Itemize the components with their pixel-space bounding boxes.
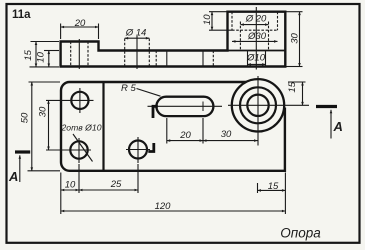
top-left hole centerlines [46, 99, 94, 101]
slot arc centerlines in side view [166, 50, 168, 68]
svg-text:Ø 20: Ø 20 [245, 14, 267, 25]
dimension 10 (plate thickness) [44, 50, 59, 52]
O30 counterbore hidden edges [231, 12, 233, 31]
plate top edge under boss [228, 50, 286, 52]
dimension 15 (step height) [31, 41, 60, 43]
svg-text:30: 30 [290, 33, 301, 44]
dimension 25 (hole to hole) [79, 189, 138, 191]
section step mark lower [148, 143, 154, 152]
left hole centerline in side view [78, 39, 80, 69]
dimension O30 [232, 40, 278, 42]
slot (obround) [156, 97, 213, 116]
svg-text:15: 15 [23, 49, 34, 60]
dimension 20 (slot length) [167, 140, 203, 142]
svg-text:Ø10: Ø10 [246, 53, 266, 64]
svg-text:20: 20 [179, 130, 191, 141]
slot right arc center tick [202, 102, 204, 112]
dimension O20 [240, 24, 268, 26]
dimension 30 (between left holes) [48, 100, 50, 150]
svg-text:Ø30: Ø30 [247, 31, 267, 42]
svg-text:10: 10 [65, 180, 76, 191]
O10 hole edges through plate [247, 51, 249, 67]
R5 leader [137, 89, 161, 97]
section step mark upper [153, 106, 158, 118]
dimension 120 (overall) [61, 210, 286, 212]
top-left hole [71, 92, 88, 109]
bottom-left hole [70, 141, 87, 158]
svg-text:15: 15 [287, 81, 298, 92]
svg-text:10: 10 [202, 14, 213, 25]
O14 centerline in side view [136, 36, 138, 69]
leader through bottom-left hole [73, 134, 93, 162]
svg-text:R 5: R 5 [121, 83, 137, 94]
svg-text:A: A [333, 119, 343, 134]
middle hole [129, 141, 147, 159]
svg-text:25: 25 [110, 179, 122, 190]
boss O20 circle [247, 95, 268, 116]
dimension O10 (through hole) [248, 63, 266, 65]
svg-text:30: 30 [37, 106, 48, 117]
svg-text:10: 10 [36, 51, 47, 62]
section arrow right [316, 105, 337, 108]
svg-text:15: 15 [268, 181, 279, 192]
boss O30 circle [240, 87, 276, 123]
dimension 20 (top of step) [60, 24, 62, 40]
svg-text:30: 30 [221, 129, 232, 140]
slot horizontal centerline [148, 105, 223, 107]
svg-text:11а: 11а [12, 9, 31, 21]
middle hole centerlines [126, 149, 150, 151]
dimension 15 (boss center to right edge) [258, 189, 286, 191]
boss centerline vertical [257, 76, 259, 146]
bottom-left hole centerlines [46, 149, 91, 151]
svg-text:2отв Ø10: 2отв Ø10 [60, 123, 101, 133]
dimension 30 (boss height) [287, 11, 303, 13]
svg-text:Опора: Опора [280, 226, 321, 241]
svg-text:50: 50 [19, 112, 30, 123]
svg-text:120: 120 [155, 201, 172, 212]
O20 hole hidden edges [239, 22, 241, 51]
svg-text:A: A [8, 169, 18, 184]
slot hidden edges in side view [155, 51, 157, 67]
dimension 10 (counterbore depth) [209, 11, 228, 13]
divider line of thicker left pad [102, 82, 104, 171]
O14 hole hidden edges in side view [124, 39, 126, 67]
boss centerline horizontal [228, 104, 309, 106]
dimension 50 (left overall height) [29, 81, 61, 83]
front view outline [61, 82, 285, 171]
extension lines bottom dims [60, 173, 62, 215]
slot arc centerlines / extension lines [166, 118, 168, 144]
counterbore bottom hidden line [232, 29, 278, 31]
dimension 10 (left edge to hole) [61, 189, 79, 191]
boss outer circle [232, 79, 284, 131]
svg-text:Ø 14: Ø 14 [125, 28, 147, 39]
svg-text:20: 20 [74, 18, 86, 29]
dimension 15 (top edge to boss center) [288, 81, 306, 83]
side view outline [61, 12, 286, 67]
boss centerline in side view [255, 7, 257, 70]
dimension 30 (slot to boss) [203, 140, 258, 142]
section arrow left [15, 150, 30, 153]
left holes hidden edges in side view [70, 42, 72, 67]
dimension O14 [125, 37, 150, 39]
